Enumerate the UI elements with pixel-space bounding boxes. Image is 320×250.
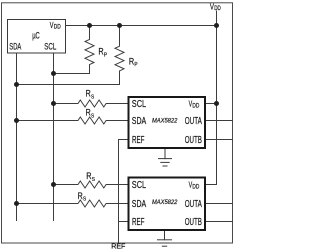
wire: U3 VDD pin elbow to VDD rail — [205, 184, 217, 186]
svg-text:OUTB: OUTB — [185, 217, 202, 228]
svg-text:DD: DD — [192, 183, 199, 190]
junction: SDA bus / RS4 — [14, 201, 19, 206]
wire: U2 VDD pin to VDD rail — [205, 103, 217, 105]
svg-text:SCL: SCL — [132, 180, 147, 191]
junction: SCL bus / RP1 return — [51, 71, 56, 76]
junction: SDA bus / RP2 return — [14, 82, 19, 87]
DAC U3 MAX5822 box — [129, 178, 206, 231]
wire: uC VDD pin to VDD rail — [66, 25, 217, 27]
svg-text:µC: µC — [32, 30, 40, 41]
svg-text:DD: DD — [54, 25, 62, 31]
svg-text:SDA: SDA — [132, 116, 147, 127]
svg-text:S: S — [91, 94, 95, 100]
wire: U3 REF pin to REF line — [119, 221, 129, 223]
svg-text:MAX5822: MAX5822 — [152, 117, 178, 124]
wire: U2 OUTA output — [205, 120, 233, 122]
svg-text:DD: DD — [192, 102, 199, 109]
DAC U2 MAX5822 box — [129, 97, 206, 148]
svg-text:OUTA: OUTA — [185, 116, 202, 127]
wire: U2 REF pin to REF rail — [119, 140, 129, 244]
junction: SDA bus / RS2 — [14, 118, 19, 123]
svg-text:OUTB: OUTB — [185, 135, 202, 146]
junction: SCL bus / RS3 — [51, 182, 56, 187]
svg-text:REF: REF — [132, 135, 144, 146]
svg-text:SCL: SCL — [132, 99, 147, 110]
resistor RP1 (SCL pull-up) — [54, 26, 95, 74]
svg-text:MAX5822: MAX5822 — [152, 199, 178, 206]
svg-text:OUTA: OUTA — [185, 199, 202, 210]
svg-text:SDA: SDA — [9, 40, 21, 51]
svg-text:S: S — [83, 197, 87, 203]
wire: U3 OUTB output — [205, 221, 233, 223]
svg-text:SDA: SDA — [132, 199, 147, 210]
svg-text:S: S — [92, 177, 96, 183]
svg-text:P: P — [104, 52, 108, 58]
wire: uC SCL bus vertical — [53, 53, 55, 220]
resistor RS2 (SDA series, U2) — [17, 117, 129, 124]
svg-text:DD: DD — [214, 5, 221, 12]
wire: VDD supply drop from top VDD symbol — [216, 11, 218, 185]
microcontroller U1 box — [8, 20, 66, 54]
svg-text:SCL: SCL — [44, 40, 56, 51]
junction: SCL bus / RS1 — [51, 101, 56, 106]
resistor RS3 (SCL series, U3) — [54, 181, 129, 188]
ground symbol at U3 GND — [158, 230, 172, 246]
svg-text:REF: REF — [132, 217, 144, 228]
junction: VDD rail / RP2 — [117, 23, 122, 28]
svg-text:REF: REF — [111, 242, 126, 250]
svg-text:S: S — [91, 113, 95, 119]
resistor RS4 (SDA series, U3) — [17, 200, 129, 207]
svg-text:P: P — [134, 62, 138, 68]
junction: VDD rail / supply drop — [214, 23, 219, 28]
resistor RP2 (SDA pull-up) — [17, 26, 125, 85]
wire: U2 OUTB output — [205, 139, 233, 141]
wire: U3 OUTA output — [205, 203, 233, 205]
ground symbol at U2 GND — [159, 149, 172, 167]
wire: uC SDA bus vertical — [16, 53, 18, 220]
junction: VDD rail / RP1 — [87, 23, 92, 28]
junction: VDD drop / U2 VDD pin — [214, 101, 219, 106]
resistor RS1 (SCL series, U2) — [54, 100, 129, 107]
